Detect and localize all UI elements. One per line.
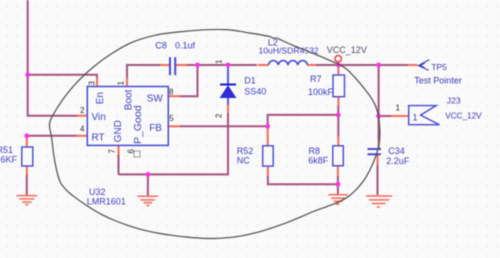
VCC_12V power port circle	[335, 56, 341, 62]
resistor R52	[263, 146, 274, 166]
svg-text:3: 3	[88, 81, 97, 86]
svg-text:VCC_12V: VCC_12V	[327, 45, 367, 55]
svg-text:1: 1	[396, 104, 401, 113]
wire down to C34	[378, 116, 380, 141]
L2 left stub	[258, 64, 269, 66]
wire pin7 down	[118, 155, 120, 174]
svg-text:TP5: TP5	[431, 62, 447, 72]
svg-text:4: 4	[80, 125, 85, 134]
wire SW node to D1 to L2	[198, 64, 258, 66]
resistor R8	[333, 146, 344, 166]
pin numbers	[80, 59, 401, 154]
ground under C34	[366, 196, 392, 207]
wire FB	[180, 125, 268, 127]
svg-text:2: 2	[80, 106, 85, 115]
R7 bottom stub	[337, 96, 339, 106]
capacitor C34	[368, 149, 382, 154]
R52 top stub	[267, 126, 269, 146]
gnd stem under IC	[147, 174, 149, 195]
L2 right stub	[308, 64, 318, 66]
pin 2 stub	[77, 115, 87, 117]
svg-text:1: 1	[215, 59, 224, 64]
pin 7 stub	[118, 145, 120, 156]
VCC port stub	[337, 62, 339, 65]
pin 8 stub	[168, 95, 180, 97]
C34 ground stem	[377, 165, 379, 195]
svg-text:FB: FB	[149, 123, 162, 134]
svg-text:P_Good: P_Good	[132, 105, 144, 144]
svg-text:100kF: 100kF	[308, 87, 334, 97]
svg-text:J23: J23	[447, 96, 461, 106]
wire En pin3	[28, 75, 97, 79]
svg-text:7: 7	[108, 149, 117, 154]
pin 4 stub	[77, 135, 87, 137]
C34 top stub	[378, 141, 380, 148]
IC U32 box	[87, 87, 168, 146]
R8 gnd stem	[337, 176, 339, 194]
node VCC	[336, 63, 341, 68]
net/other labels dark	[327, 45, 367, 55]
svg-text:6k8F: 6k8F	[308, 156, 329, 166]
diode D1	[220, 85, 236, 98]
svg-text:1: 1	[413, 112, 418, 122]
D1 anode stub blue	[227, 98, 229, 106]
wire node to R8	[337, 115, 339, 136]
svg-text:8: 8	[169, 88, 174, 97]
R52 bottom stub	[267, 166, 269, 176]
J23 stub	[391, 115, 409, 117]
ground under R51	[17, 196, 37, 205]
svg-text:VCC_12V: VCC_12V	[445, 112, 482, 121]
svg-text:1: 1	[117, 81, 126, 86]
TP5 test point arrow	[418, 60, 429, 71]
R51 ground stem	[26, 175, 28, 195]
wire L2 to VCC node	[316, 64, 338, 66]
svg-text:LMR1601: LMR1601	[87, 197, 126, 207]
wire R7 to node	[337, 106, 339, 115]
svg-text:2.2uF: 2.2uF	[386, 156, 410, 166]
pin 5 stub	[168, 125, 180, 127]
svg-text:GND: GND	[113, 120, 124, 142]
wire left vertical En/Vin	[28, 0, 77, 116]
svg-text:SW: SW	[147, 93, 164, 104]
C8 right stub	[176, 64, 187, 66]
svg-text:C34: C34	[388, 146, 405, 156]
svg-text:R7: R7	[310, 74, 322, 84]
node J23 branch	[376, 114, 381, 119]
svg-text:R8: R8	[309, 146, 321, 156]
pin 1 stub	[126, 78, 128, 87]
R8 bottom stub	[337, 166, 339, 177]
ground under R8	[329, 195, 348, 204]
node FB/R52	[265, 124, 270, 129]
svg-text:6: 6	[127, 149, 136, 154]
svg-text:En: En	[95, 92, 106, 104]
svg-text:5: 5	[169, 114, 174, 123]
node En tap	[25, 72, 30, 77]
svg-text:2: 2	[215, 113, 224, 118]
svg-text:U32: U32	[89, 187, 106, 197]
svg-text:56KF: 56KF	[0, 154, 18, 164]
wire R52 bottom to gnd node	[268, 176, 338, 184]
svg-text:NC: NC	[237, 156, 250, 166]
annotation ellipse	[49, 29, 379, 238]
wire FB node up to R7/R8 node	[268, 115, 339, 126]
IC pin names	[92, 89, 164, 144]
resistor R7	[333, 75, 345, 97]
node R7/R8	[336, 113, 341, 118]
ground under IC	[138, 196, 159, 205]
wire Boot pin1 up	[127, 65, 161, 78]
svg-text:RT: RT	[92, 133, 105, 144]
svg-text:Vin: Vin	[92, 112, 106, 123]
svg-text:SS40: SS40	[244, 86, 266, 96]
J23 connector symbol	[409, 106, 440, 125]
wire D1 anode down to gnd rail	[119, 113, 229, 174]
D1 cathode stub	[227, 65, 229, 84]
wire C8 to SW node	[180, 65, 198, 96]
node gnd under IC	[146, 172, 151, 177]
node RT/R51	[24, 133, 29, 138]
wire TP node down to J23 and C34	[378, 65, 380, 116]
node TP branch	[376, 63, 381, 68]
node C8/SW	[195, 63, 200, 68]
R7 top stub	[337, 65, 339, 75]
R51 bottom stub	[26, 166, 28, 175]
R8 top stub	[337, 136, 339, 146]
wire J23 branch	[379, 115, 391, 117]
wire TP node to TP5	[379, 64, 408, 66]
resistor R51	[22, 147, 33, 166]
svg-text:R52: R52	[237, 146, 254, 156]
pin 3 stub	[96, 78, 98, 87]
D1 anode stub red	[227, 105, 229, 113]
no-connect square pin6	[134, 151, 140, 157]
svg-text:D1: D1	[244, 76, 256, 86]
wire VCC node to TP node	[338, 64, 378, 66]
capacitor C8	[170, 57, 175, 75]
R51 top stub	[26, 136, 28, 147]
svg-text:0.1uf: 0.1uf	[175, 41, 196, 51]
C8 left stub	[161, 64, 170, 66]
svg-text:Test Pointer: Test Pointer	[414, 76, 462, 86]
C34 bottom stub	[377, 155, 379, 165]
TP5 stub	[408, 64, 418, 66]
node R8 gnd	[336, 182, 341, 187]
svg-text:10uH/SDR4532: 10uH/SDR4532	[259, 46, 319, 56]
svg-text:C8: C8	[155, 40, 167, 50]
wire RT	[27, 135, 77, 137]
inductor L2	[269, 61, 308, 65]
node D1 cathode	[226, 63, 231, 68]
component labels blue	[0, 37, 418, 206]
